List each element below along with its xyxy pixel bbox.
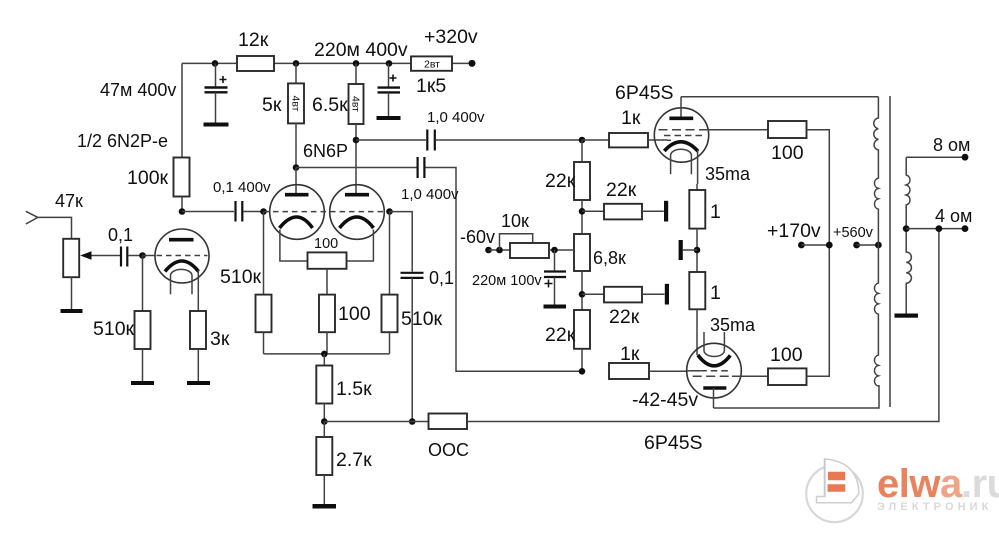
svg-text:100к: 100к <box>127 167 169 189</box>
wire OOC line right <box>467 229 939 422</box>
svg-text:1,0 400v: 1,0 400v <box>427 109 485 126</box>
svg-text:elwa: elwa <box>877 462 963 506</box>
resistor 510k grid left <box>220 212 272 354</box>
ground secondary <box>895 314 919 318</box>
svg-text:-42-45v: -42-45v <box>632 389 698 411</box>
node junction grid 6N6P right <box>386 208 393 215</box>
svg-text:100: 100 <box>770 344 803 366</box>
logo elwa text <box>877 462 999 513</box>
svg-text:1к: 1к <box>621 107 641 129</box>
resistor OOC feedback <box>428 414 469 461</box>
svg-text:+560v: +560v <box>833 225 874 241</box>
tube V1 6N2P triode <box>155 229 209 311</box>
node junction 4 om tap <box>903 225 910 232</box>
ground under potentiometer <box>61 309 83 313</box>
resistor 3k cathode stage1 <box>190 311 230 381</box>
resistor 510k grid stage1 <box>93 256 151 382</box>
svg-text:1,0 400v: 1,0 400v <box>401 186 459 203</box>
node junction anode right 6N6P <box>353 137 360 144</box>
wire dashed grids 6N6P <box>264 211 390 213</box>
ground under 2.7k <box>313 504 337 509</box>
resistor 22k upper horizontal <box>582 179 664 219</box>
svg-text:510к: 510к <box>401 308 443 330</box>
svg-text:220м 100v: 220м 100v <box>472 273 542 289</box>
svg-text:2.7к: 2.7к <box>336 449 372 471</box>
capacitor 1,0 400v coupling top <box>356 109 582 151</box>
capacitor 1,0 400v coupling bottom <box>296 157 582 371</box>
capacitor 220m 100v electrolytic <box>472 250 566 305</box>
svg-text:5к: 5к <box>262 94 282 116</box>
svg-text:100: 100 <box>771 142 804 164</box>
svg-text:1: 1 <box>710 282 721 304</box>
capacitor 0,1 feedback <box>401 268 455 422</box>
svg-text:22к: 22к <box>606 179 637 201</box>
node junction grid stage1 <box>139 252 146 259</box>
svg-text:4 ом: 4 ом <box>935 206 972 226</box>
svg-text:6N6P: 6N6P <box>303 141 348 161</box>
resistor 1k grid top <box>582 107 667 147</box>
resistor 6,8k <box>574 234 626 310</box>
grid bar lower tube <box>665 284 669 305</box>
svg-text:510к: 510к <box>220 266 262 288</box>
svg-text:1/2 6N2P-e: 1/2 6N2P-e <box>77 131 168 151</box>
ground under 220m cap <box>377 116 401 120</box>
node junction A1 <box>212 60 219 67</box>
wire anode top to transformer <box>681 96 878 98</box>
svg-text:35ma: 35ma <box>710 315 756 335</box>
tube V2b 6N6P right <box>330 140 385 239</box>
svg-text:4вт: 4вт <box>350 96 362 112</box>
svg-text:0,1: 0,1 <box>108 225 133 245</box>
node junction OOC left <box>409 418 416 425</box>
resistor 22k upper vertical <box>545 140 590 234</box>
node junction grid rail top <box>579 137 586 144</box>
node junction grid 6N6P left <box>260 208 267 215</box>
wire anode stage1 to coupling cap <box>182 211 234 213</box>
ground under 510k stage1 <box>131 381 154 385</box>
resistor 2.7k <box>316 422 372 505</box>
wire grid stage1 <box>143 255 156 257</box>
svg-text:ЭЛЕКТРОНИК: ЭЛЕКТРОНИК <box>877 501 992 513</box>
svg-text:35ma: 35ma <box>705 164 751 184</box>
svg-text:6P45S: 6P45S <box>644 432 703 454</box>
svg-text:+320v: +320v <box>424 26 478 48</box>
grid bar upper tube <box>664 201 668 222</box>
ground under 47m cap <box>204 123 229 127</box>
resistor 5k 4wt <box>262 63 304 167</box>
resistor 1.5k <box>316 354 372 422</box>
svg-text:22к: 22к <box>545 324 576 346</box>
svg-text:510к: 510к <box>93 318 135 340</box>
node junction feedback tap <box>936 225 943 232</box>
svg-text:6,8к: 6,8к <box>593 248 626 268</box>
svg-text:22к: 22к <box>609 306 640 328</box>
resistor 1 ohm lower <box>689 272 721 355</box>
resistor 1k5 2wt <box>411 56 452 97</box>
resistor 1k grid bottom <box>609 343 687 379</box>
svg-text:6P45S: 6P45S <box>615 82 674 104</box>
node junction A2 <box>293 60 300 67</box>
node junction bias upper <box>579 208 586 215</box>
svg-text:+170v: +170v <box>767 220 821 242</box>
svg-text:1к: 1к <box>620 343 640 365</box>
svg-text:47к: 47к <box>55 191 83 211</box>
node junction feedback <box>321 418 328 425</box>
node terminal 8 om <box>906 135 970 161</box>
node terminal 4 om <box>906 206 972 232</box>
node junction tail <box>321 351 328 358</box>
resistor 100 tail <box>319 295 371 354</box>
svg-text:.ru: .ru <box>961 462 999 506</box>
capacitor 0,1 400v coupling <box>213 179 271 222</box>
wire grid right to 0,1 cap <box>390 212 413 272</box>
node terminal +170v <box>798 242 829 249</box>
wire OOC line left <box>324 421 428 423</box>
svg-text:8 ом: 8 ом <box>933 135 970 155</box>
svg-text:220м 400v: 220м 400v <box>314 39 408 61</box>
tube V3 6P45S top <box>654 97 768 184</box>
wire anode bottom to transformer <box>714 385 880 408</box>
node junction bias tap <box>551 247 558 254</box>
node terminal +560v <box>853 242 878 249</box>
transformer core <box>889 96 891 407</box>
capacitor 47m 400v electrolytic <box>100 63 228 122</box>
resistor 100 screen bottom <box>768 344 829 385</box>
svg-text:0,1: 0,1 <box>429 268 454 288</box>
svg-text:ООС: ООС <box>428 440 469 460</box>
svg-text:2вт: 2вт <box>424 59 440 71</box>
logo elwa mark <box>806 459 863 522</box>
node junction primary center tap <box>875 242 882 249</box>
node junction A3 <box>353 60 360 67</box>
node junction cathode mid <box>694 247 701 254</box>
resistor 22k lower vertical <box>545 310 590 371</box>
input connector chevron <box>26 191 83 239</box>
resistor 100 screen top <box>768 121 829 377</box>
svg-text:100: 100 <box>314 236 338 252</box>
node junction grid rail bottom <box>579 368 586 375</box>
node junction bias lower <box>579 291 586 298</box>
svg-text:4вт: 4вт <box>290 96 302 112</box>
resistor 12k <box>237 29 274 71</box>
svg-text:10к: 10к <box>501 211 529 231</box>
svg-text:6.5к: 6.5к <box>312 94 348 116</box>
transformer primary <box>874 97 879 387</box>
node terminal -60v <box>485 247 492 254</box>
svg-text:1к5: 1к5 <box>416 75 446 97</box>
cathode mid bar <box>679 240 697 260</box>
resistor 22k lower horizontal <box>582 287 665 328</box>
tube V4 6P45S bottom <box>687 332 768 408</box>
wire top supply rail <box>182 63 472 157</box>
resistor 1 ohm upper <box>689 184 721 272</box>
svg-text:100: 100 <box>338 303 371 325</box>
svg-text:0,1 400v: 0,1 400v <box>213 179 271 196</box>
svg-text:12к: 12к <box>238 29 269 51</box>
svg-text:47м 400v: 47м 400v <box>100 80 176 100</box>
resistor 100 cathode balance <box>280 230 374 295</box>
svg-text:1: 1 <box>710 201 721 223</box>
svg-text:1.5к: 1.5к <box>336 378 372 400</box>
wire cathode bus <box>264 353 390 355</box>
ground under 220m 100v <box>544 305 567 309</box>
ground under 3k <box>187 381 210 385</box>
svg-text:3к: 3к <box>210 328 230 350</box>
node junction anode 6N6P left <box>293 164 300 171</box>
node junction screen rail <box>826 242 833 249</box>
capacitor 220m 400v electrolytic <box>378 63 401 116</box>
resistor 6.5k 4wt <box>312 63 364 140</box>
potentiometer 47k <box>63 239 120 309</box>
capacitor 0,1 input <box>108 225 142 267</box>
resistor 100k <box>127 158 190 213</box>
svg-text:-60v: -60v <box>460 227 495 247</box>
svg-text:22к: 22к <box>545 170 576 192</box>
potentiometer 10k bias <box>489 211 575 258</box>
node terminal +320v <box>424 26 478 67</box>
transformer secondary <box>906 157 911 313</box>
node junction first stage anode <box>179 208 186 215</box>
node junction A4 <box>386 60 393 67</box>
tube V2a 6N6P left <box>270 168 325 240</box>
resistor 510k grid right <box>382 212 443 354</box>
